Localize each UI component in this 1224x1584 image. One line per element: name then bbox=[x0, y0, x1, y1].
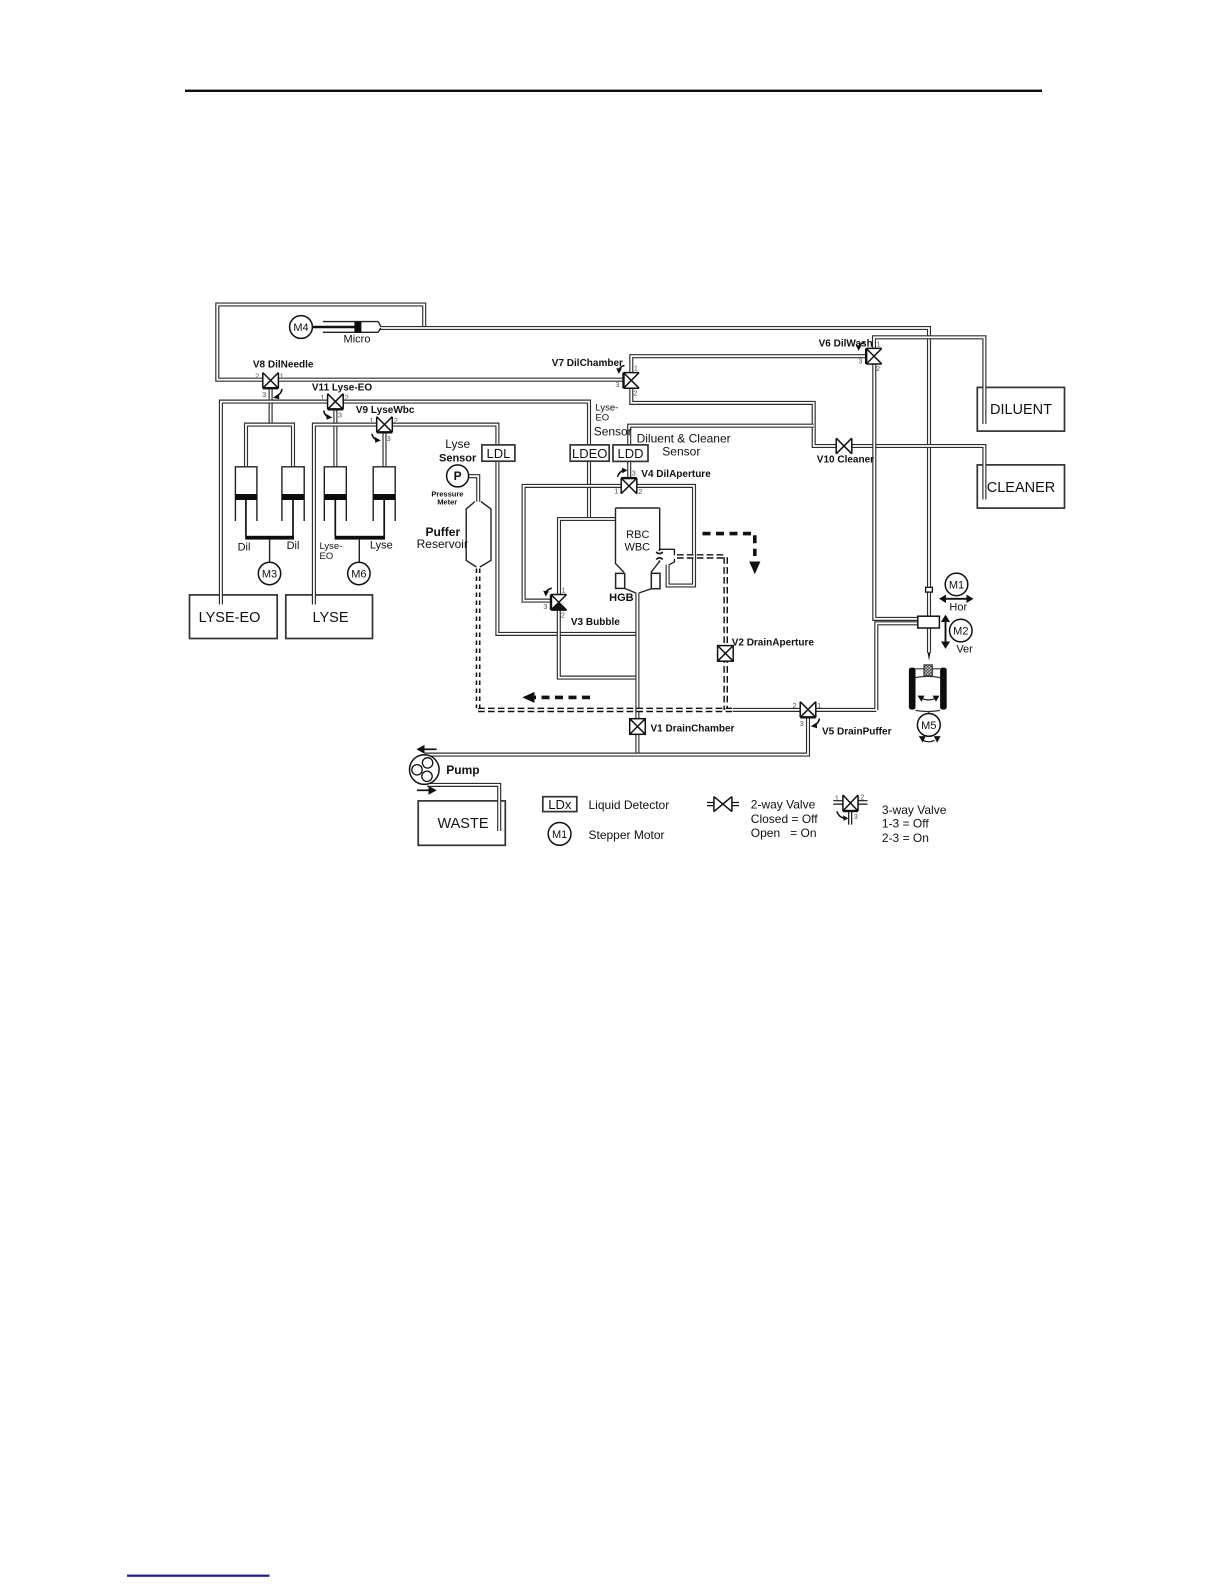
valve V4 DilAperture 3-way bbox=[614, 468, 642, 496]
sample cup hatched bbox=[924, 665, 932, 676]
svg-text:Dil: Dil bbox=[238, 541, 251, 553]
wire Dil syringe splitter manifold bbox=[246, 425, 293, 467]
svg-text:V11 Lyse-EO: V11 Lyse-EO bbox=[312, 383, 372, 394]
container WASTE bbox=[418, 801, 505, 845]
svg-text:2: 2 bbox=[394, 416, 398, 425]
wire V8 port3 stem down bbox=[269, 385, 273, 425]
svg-text:2-3 = On: 2-3 = On bbox=[882, 831, 929, 845]
micro syringe body bbox=[312, 322, 380, 333]
svg-text:3: 3 bbox=[632, 469, 636, 478]
M3 plunger yoke bbox=[245, 536, 294, 562]
svg-text:3: 3 bbox=[262, 390, 266, 399]
svg-text:2: 2 bbox=[860, 793, 864, 802]
svg-text:EO: EO bbox=[320, 551, 334, 562]
svg-text:Lyse: Lyse bbox=[370, 540, 393, 552]
M5 rotation arrows bbox=[919, 736, 941, 743]
svg-text:V10 Cleaner: V10 Cleaner bbox=[817, 455, 874, 466]
wire V7 port2 down-right-down to V10 port left bbox=[631, 386, 836, 447]
svg-text:M1: M1 bbox=[552, 829, 567, 841]
valve V6 DilWash 3-way bbox=[856, 340, 882, 374]
svg-text:LDEO: LDEO bbox=[572, 446, 607, 461]
svg-text:2: 2 bbox=[345, 393, 349, 402]
svg-text:Stepper Motor: Stepper Motor bbox=[589, 828, 665, 842]
svg-text:1: 1 bbox=[280, 372, 284, 381]
svg-text:Closed = Off: Closed = Off bbox=[751, 812, 818, 826]
svg-text:3: 3 bbox=[858, 356, 862, 365]
svg-text:1: 1 bbox=[817, 701, 821, 710]
wire pump outlet to WASTE dip tube bbox=[427, 785, 499, 831]
svg-text:1: 1 bbox=[320, 393, 324, 402]
svg-text:LDx: LDx bbox=[548, 797, 572, 812]
svg-text:1: 1 bbox=[877, 340, 881, 349]
wire V6 port2 down to needle wash block bbox=[874, 362, 918, 619]
flow arrow dashed left above waste junction bbox=[522, 692, 590, 703]
Ver double arrow bbox=[941, 615, 950, 649]
svg-text:V4 DilAperture: V4 DilAperture bbox=[641, 469, 711, 480]
svg-text:Hor: Hor bbox=[949, 601, 967, 613]
container DILUENT bbox=[977, 387, 1064, 431]
svg-text:V1 DrainChamber: V1 DrainChamber bbox=[651, 723, 735, 734]
valve V11 Lyse-EO 3-way bbox=[320, 393, 349, 420]
svg-text:V6 DilWash: V6 DilWash bbox=[819, 338, 873, 349]
svg-text:2: 2 bbox=[255, 372, 259, 381]
svg-text:Lyse: Lyse bbox=[445, 437, 470, 451]
svg-text:3-way Valve: 3-way Valve bbox=[882, 803, 947, 817]
svg-text:3: 3 bbox=[338, 411, 342, 420]
svg-text:2: 2 bbox=[633, 389, 637, 398]
svg-text:V3 Bubble: V3 Bubble bbox=[571, 617, 620, 628]
wire solid segment junction to V5 port2 bbox=[733, 708, 800, 712]
wire pressure meter P to puffer reservoir neck bbox=[468, 476, 478, 501]
svg-text:3: 3 bbox=[543, 602, 547, 611]
valve V1 DrainChamber 2-way bbox=[630, 719, 646, 735]
svg-text:M6: M6 bbox=[351, 569, 366, 581]
pump inflow arrow bbox=[416, 745, 436, 754]
wire V3 port2 down-right to chamber drain bbox=[559, 607, 636, 678]
sample rotor right bar bbox=[940, 668, 947, 710]
wire chamber inlet: V3 port1 up and right into RBC chamber bbox=[559, 519, 616, 595]
valve V5 DrainPuffer 3-way bbox=[793, 701, 822, 729]
container LYSE-EO bbox=[190, 595, 278, 639]
sample needle collar bbox=[926, 587, 933, 592]
detector box LDEO bbox=[570, 445, 609, 461]
wire V11 port3 stem to Lyse-EO syringe bbox=[333, 406, 337, 467]
detector box LDD bbox=[613, 445, 648, 462]
wire V4 port2 loop right-down to aperture bath bbox=[634, 486, 694, 586]
motor M3 circle bbox=[258, 562, 280, 584]
wire micro syringe tip to sample needle bbox=[380, 328, 929, 653]
svg-text:Ver: Ver bbox=[956, 644, 973, 656]
svg-text:M1: M1 bbox=[949, 579, 964, 591]
svg-text:Sensor: Sensor bbox=[439, 452, 477, 464]
aperture symbol bbox=[656, 549, 663, 562]
HGB detector right block bbox=[651, 573, 660, 588]
svg-text:1-3 = Off: 1-3 = Off bbox=[882, 817, 929, 831]
needle wash block bbox=[918, 616, 940, 628]
svg-text:LYSE-EO: LYSE-EO bbox=[199, 610, 261, 626]
svg-text:HGB: HGB bbox=[609, 592, 634, 604]
svg-text:P: P bbox=[454, 469, 462, 483]
motor M4 circle bbox=[290, 316, 313, 339]
motor M5 circle bbox=[917, 714, 940, 737]
pressure meter P circle bbox=[447, 465, 469, 487]
Lyse syringe barrel bbox=[373, 467, 395, 537]
legend 2-way valve symbol bbox=[707, 797, 739, 812]
motor M6 circle bbox=[348, 562, 370, 584]
svg-text:Liquid Detector: Liquid Detector bbox=[589, 798, 670, 812]
svg-text:WASTE: WASTE bbox=[437, 816, 488, 832]
svg-text:2: 2 bbox=[793, 701, 797, 710]
pump outflow arrow bbox=[417, 786, 437, 795]
valve V8 DilNeedle 3-way bbox=[255, 372, 284, 400]
svg-text:V9 LyseWbc: V9 LyseWbc bbox=[356, 405, 415, 416]
svg-text:3: 3 bbox=[800, 719, 804, 728]
svg-text:CLEANER: CLEANER bbox=[987, 480, 1056, 496]
puffer reservoir vessel bbox=[466, 502, 491, 567]
top horizontal rule bbox=[185, 90, 1042, 92]
legend M1 motor bbox=[548, 823, 571, 846]
svg-text:V8 DilNeedle: V8 DilNeedle bbox=[253, 359, 314, 370]
wire rail V8 port1 to V7 port3 bbox=[278, 378, 623, 382]
wire V7 port1 up to V6 port3 bbox=[631, 356, 866, 375]
valve V2 DrainAperture 2-way bbox=[718, 646, 734, 662]
svg-text:Sensor: Sensor bbox=[662, 444, 700, 458]
wire V6 port1 up-right to DILUENT dip tube bbox=[874, 337, 984, 424]
svg-text:Meter: Meter bbox=[437, 498, 457, 507]
needle tip bbox=[928, 653, 931, 661]
svg-text:Reservoir: Reservoir bbox=[417, 537, 468, 551]
flow arrow dashed down-right of chamber bbox=[703, 534, 761, 575]
wire V10 right to CLEANER dip tube bbox=[852, 446, 985, 500]
container CLEANER bbox=[977, 465, 1064, 508]
svg-text:DILUENT: DILUENT bbox=[990, 402, 1052, 418]
svg-text:1: 1 bbox=[614, 486, 618, 495]
wire waste line: V5 port3 down then left to pump bbox=[425, 714, 809, 755]
Lyse-EO syringe barrel bbox=[324, 467, 346, 537]
motor M1 circle bbox=[945, 573, 968, 596]
legend LDx box bbox=[543, 797, 577, 812]
svg-text:Dil: Dil bbox=[287, 540, 300, 552]
detector box LDL bbox=[482, 445, 515, 461]
Dil syringe barrel 1 bbox=[235, 467, 257, 537]
svg-text:Open = On: Open = On bbox=[751, 826, 817, 840]
svg-text:1: 1 bbox=[634, 363, 638, 372]
Dil syringe barrel 2 bbox=[282, 467, 304, 537]
RBC WBC chamber outline bbox=[616, 508, 675, 593]
wire wash block drain down to V5 port1 bbox=[816, 623, 918, 710]
legend 3-way valve symbol bbox=[833, 793, 867, 825]
svg-text:M2: M2 bbox=[953, 626, 968, 638]
rotor rotation arrows bbox=[918, 696, 940, 702]
svg-text:2: 2 bbox=[638, 487, 642, 496]
wire rail2 LYSE-EO dip tube to V11 to LDEO sensor line bbox=[221, 402, 589, 605]
svg-text:LDD: LDD bbox=[617, 446, 643, 461]
svg-text:LDL: LDL bbox=[486, 446, 510, 461]
svg-text:LYSE: LYSE bbox=[312, 610, 348, 626]
svg-text:Micro: Micro bbox=[344, 333, 371, 345]
wire micro-syringe loop: V8 port2 up-over to syringe tip bbox=[217, 305, 424, 380]
svg-text:3: 3 bbox=[854, 812, 858, 821]
valve V3 Bubble 3-way bbox=[543, 586, 566, 620]
svg-text:2-way Valve: 2-way Valve bbox=[751, 798, 816, 812]
dashed wire waste junction horizontal run bbox=[478, 708, 733, 713]
wire V9 port3 stem to Lyse syringe bbox=[382, 429, 386, 467]
svg-text:Pump: Pump bbox=[446, 763, 479, 777]
svg-text:WBC: WBC bbox=[624, 542, 650, 554]
M6 plunger yoke bbox=[335, 536, 385, 562]
wire chamber drain neck through V1 to waste line bbox=[635, 593, 639, 755]
svg-text:EO: EO bbox=[595, 413, 609, 424]
svg-text:V2 DrainAperture: V2 DrainAperture bbox=[732, 637, 815, 648]
container LYSE bbox=[286, 595, 373, 639]
peristaltic pump bbox=[410, 755, 440, 785]
svg-text:M3: M3 bbox=[262, 569, 277, 581]
Hor double arrow bbox=[939, 595, 974, 603]
bottom blue underline bbox=[127, 1575, 270, 1577]
svg-text:M5: M5 bbox=[921, 720, 936, 732]
HGB detector left block bbox=[616, 573, 625, 588]
svg-text:V5 DrainPuffer: V5 DrainPuffer bbox=[822, 726, 892, 737]
valve V10 Cleaner 2-way bbox=[836, 438, 852, 454]
valve V7 DilChamber 3-way bbox=[615, 363, 639, 397]
svg-text:1: 1 bbox=[562, 586, 566, 595]
sample rotor cup lines bbox=[916, 669, 941, 714]
motor M2 circle bbox=[950, 619, 973, 642]
svg-text:2: 2 bbox=[876, 364, 880, 373]
svg-text:2: 2 bbox=[561, 611, 565, 620]
svg-text:RBC: RBC bbox=[626, 529, 649, 541]
sample rotor left bar bbox=[909, 668, 916, 710]
svg-text:1: 1 bbox=[369, 416, 373, 425]
svg-text:M4: M4 bbox=[293, 322, 308, 334]
svg-text:Sensor: Sensor bbox=[594, 424, 632, 438]
svg-text:3: 3 bbox=[387, 434, 391, 443]
wire V4 port1 loop left-down to V3 port3 bbox=[524, 486, 624, 601]
dashed wire puffer reservoir down bbox=[476, 569, 481, 709]
valve V9 LyseWbc 3-way bbox=[369, 416, 398, 443]
svg-text:1: 1 bbox=[835, 793, 839, 802]
wire diluent-cleaner sensor line: V4 port3 via LDD to junction bbox=[629, 426, 814, 478]
svg-text:3: 3 bbox=[615, 380, 619, 389]
dashed wire aperture to V2 to waste junction bbox=[677, 556, 726, 710]
svg-text:V7 DilChamber: V7 DilChamber bbox=[552, 358, 623, 369]
wire rail3 LYSE dip tube to V9 to LDL line to chamber drain bbox=[314, 425, 636, 634]
